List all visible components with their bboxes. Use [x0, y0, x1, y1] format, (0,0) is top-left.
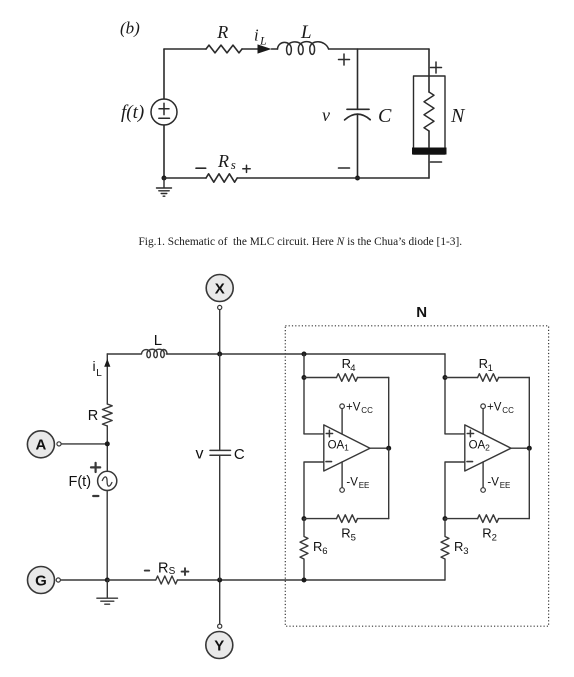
wire between R and arrow [242, 48, 258, 50]
source F(t) sine [101, 476, 112, 486]
wire OA1 minus input corner [304, 462, 324, 519]
svg-text:R: R [313, 539, 322, 554]
svg-text:2: 2 [485, 443, 490, 453]
label plus capacitor top [339, 54, 350, 65]
svg-text:L: L [154, 332, 162, 349]
source F(t) circle [98, 471, 117, 490]
wire below source [163, 125, 165, 178]
svg-text:Y: Y [214, 637, 224, 654]
wire bottom rail Rs to right [178, 579, 446, 581]
label OA1 minus input [326, 461, 332, 463]
svg-text:A: A [35, 437, 46, 454]
svg-text:(b): (b) [120, 19, 140, 38]
label OA2 plus input [467, 430, 473, 436]
label minus capacitor top circuit [339, 167, 350, 169]
source plus-minus symbol [159, 103, 170, 118]
svg-text:R: R [482, 526, 491, 541]
wire OA2 minus input corner [445, 462, 465, 519]
node junction dot G rail [105, 578, 110, 583]
wire N bottom to rail [428, 155, 430, 179]
bar N bottom thick [412, 148, 447, 155]
capacitor C bottom circuit plates [210, 450, 231, 455]
node junction dot OA1 top rail [302, 352, 307, 357]
resistor R2 [478, 515, 499, 523]
wire R1 right lead [499, 377, 530, 379]
wire OA2 Vcc lead [482, 409, 484, 435]
wire Y to rail [219, 580, 221, 624]
resistor R bottom circuit [102, 404, 112, 426]
svg-text:R: R [454, 539, 463, 554]
svg-text:Fig.1. Schematic of the MLC c: Fig.1. Schematic of the MLC circuit. Her… [139, 236, 463, 248]
wire OA1 plus input [304, 433, 324, 435]
wire capacitor lower stub [219, 455, 221, 580]
wire OA1 right vertical lower [388, 448, 390, 518]
wire F(t) to rail [106, 491, 108, 581]
svg-text:R: R [88, 408, 98, 424]
wire before inductor [272, 48, 278, 50]
capacitor C curved plate [345, 114, 371, 120]
wire top rail right segment [166, 353, 445, 355]
op-amp OA1 triangle [324, 425, 370, 471]
label minus Rs [196, 167, 206, 169]
wire R1 left lead [445, 377, 478, 379]
svg-text:EE: EE [359, 481, 370, 490]
wire OA2 output [511, 447, 529, 449]
node junction dot R1 left [443, 375, 448, 380]
node junction dot bottom-left [162, 176, 167, 181]
wire OA1 right vertical upper [388, 378, 390, 449]
svg-text:C: C [378, 105, 392, 127]
wire R4 right lead [358, 377, 389, 379]
svg-text:N: N [416, 304, 427, 321]
svg-text:X: X [215, 280, 225, 297]
svg-text:5: 5 [351, 532, 356, 543]
wire resistor N to bar [428, 131, 430, 148]
terminal Y open node [218, 624, 222, 628]
node OA2 Vcc open circle [481, 404, 486, 409]
node OA2 Vee open circle [481, 488, 486, 493]
label plus F(t) [91, 463, 100, 472]
wire OA1 left vertical upper [303, 354, 305, 434]
svg-text:G: G [35, 572, 47, 589]
inductor L bottom circuit [142, 349, 168, 358]
wire R2 right lead [499, 518, 530, 520]
svg-text:L: L [96, 368, 102, 379]
node junction dot OA2 output [527, 446, 532, 451]
label minus Rs bottom [145, 570, 149, 572]
wire right vertical into N [428, 49, 430, 92]
svg-text:2: 2 [492, 532, 497, 543]
svg-text:R: R [217, 151, 229, 171]
wire OA1 output [370, 447, 389, 449]
resistor R5 [337, 515, 358, 523]
node junction dot R6 rail [302, 578, 307, 583]
wire OA2 plus input [445, 433, 465, 435]
resistor R3 [441, 519, 449, 580]
svg-text:v: v [196, 446, 204, 463]
source f(t) circle [151, 99, 177, 125]
svg-text:v: v [322, 105, 330, 125]
terminal X open node [218, 305, 222, 309]
wire top rail left segment [107, 353, 141, 355]
wire capacitor bottom stub [357, 114, 359, 178]
node junction dot A [105, 441, 110, 446]
wire R4 left lead [304, 377, 337, 379]
resistor R6 [300, 519, 308, 580]
label minus N [431, 161, 442, 163]
svg-text:OA: OA [328, 439, 345, 451]
node junction dot OA1 output [386, 446, 391, 451]
wire left vertical top (source to top rail) [163, 49, 165, 99]
label plus N [431, 62, 442, 73]
svg-text:s: s [231, 157, 236, 172]
svg-text:EE: EE [500, 481, 511, 490]
wire X to top rail [219, 310, 221, 354]
svg-text:-V: -V [487, 477, 499, 489]
svg-text:R: R [158, 560, 168, 576]
resistor Rs top circuit [206, 174, 237, 182]
svg-text:f(t): f(t) [121, 102, 144, 123]
svg-text:L: L [300, 22, 312, 43]
resistor Rs bottom circuit [156, 576, 178, 584]
wire capacitor top stub [357, 49, 359, 109]
terminal Y circle [206, 632, 233, 659]
svg-text:R: R [479, 356, 488, 371]
svg-text:CC: CC [502, 406, 514, 415]
svg-text:L: L [259, 33, 267, 47]
wire OA1 Vcc lead [341, 409, 343, 435]
svg-text:R: R [341, 526, 350, 541]
wire top rail left [164, 48, 206, 50]
ground top circuit [157, 178, 172, 196]
box N dotted [285, 326, 548, 626]
node junction dot R2 left [443, 516, 448, 521]
wire R2 left lead [445, 518, 478, 520]
label minus F(t) [93, 495, 98, 497]
wire bottom rail right [237, 177, 429, 179]
node junction dot capacitor top [217, 352, 222, 357]
svg-text:F(t): F(t) [69, 474, 92, 490]
wire G to rail [61, 579, 107, 581]
label plus Rs [243, 165, 250, 172]
wire OA2 Vee lead [482, 462, 484, 488]
arrow iL top [258, 44, 272, 53]
svg-text:3: 3 [463, 546, 468, 557]
node OA1 Vcc open circle [340, 404, 345, 409]
box N chua diode [414, 76, 446, 154]
wire bottom rail G to Rs [107, 579, 155, 581]
svg-text:R: R [216, 22, 228, 42]
terminal A open node [57, 442, 61, 446]
svg-text:4: 4 [350, 363, 355, 374]
node junction dot capacitor bottom [355, 176, 360, 181]
resistor R4 [337, 374, 358, 382]
wire OA1 Vee lead [341, 462, 343, 488]
svg-text:S: S [169, 566, 176, 577]
terminal G circle [28, 567, 55, 594]
wire A to junction [62, 443, 108, 445]
wire capacitor upper stub [219, 354, 221, 450]
svg-text:1: 1 [488, 363, 493, 374]
svg-text:6: 6 [322, 546, 327, 557]
svg-text:i: i [93, 358, 96, 374]
terminal A circle [27, 431, 54, 458]
svg-text:C: C [234, 446, 245, 463]
ground bottom circuit [97, 580, 118, 604]
wire R5 right lead [358, 518, 389, 520]
wire R5 left lead [304, 518, 337, 520]
terminal G open node [56, 578, 60, 582]
svg-text:CC: CC [361, 406, 373, 415]
svg-text:1: 1 [344, 443, 349, 453]
wire OA2 right vertical upper [528, 378, 530, 449]
inductor L top [278, 42, 329, 55]
label plus Rs bottom [182, 568, 189, 575]
wire OA2 right vertical lower [528, 448, 530, 518]
terminal X circle [206, 275, 233, 302]
resistor inside N [424, 92, 434, 131]
svg-text:+V: +V [346, 401, 361, 413]
wire top rail right [329, 48, 429, 50]
svg-text:OA: OA [469, 439, 486, 451]
wire OA2 top rail corner [444, 354, 446, 434]
capacitor C top plate [347, 108, 369, 110]
label OA1 plus input [326, 430, 332, 436]
svg-text:N: N [450, 105, 466, 127]
node junction dot R5 left [302, 516, 307, 521]
wire bottom rail left [164, 177, 206, 179]
svg-text:-V: -V [346, 477, 358, 489]
node junction dot capacitor bottom rail [217, 578, 222, 583]
svg-text:i: i [254, 26, 259, 45]
wire left branch vertical [106, 354, 108, 404]
wire R to A junction [106, 426, 108, 471]
label OA2 minus input [467, 461, 473, 463]
node junction dot R4 left [302, 375, 307, 380]
arrow iL bottom circuit [104, 359, 110, 367]
resistor R top [206, 45, 242, 53]
node OA1 Vee open circle [340, 488, 345, 493]
resistor R1 [478, 374, 499, 382]
op-amp OA2 triangle [465, 425, 511, 471]
svg-text:+V: +V [487, 401, 502, 413]
